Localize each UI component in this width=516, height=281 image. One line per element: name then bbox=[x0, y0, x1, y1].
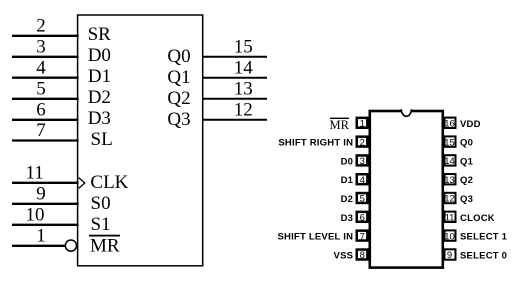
wire pin 2 SR bbox=[12, 35, 79, 37]
wire pin 12 Q3 bbox=[203, 119, 267, 121]
svg-text:SL: SL bbox=[91, 129, 113, 150]
svg-text:4: 4 bbox=[36, 57, 46, 78]
svg-text:S1: S1 bbox=[91, 214, 111, 235]
svg-text:CLK: CLK bbox=[90, 172, 128, 193]
DIP pin 10 box bbox=[444, 230, 455, 242]
DIP pin 1 box bbox=[357, 118, 368, 130]
clock wedge bbox=[79, 178, 85, 189]
wire pin 1 MR bbox=[12, 245, 65, 247]
svg-text:SHIFT LEVEL IN: SHIFT LEVEL IN bbox=[277, 232, 353, 243]
svg-text:Q0: Q0 bbox=[460, 138, 473, 149]
DIP pin 5 box bbox=[357, 193, 368, 205]
svg-text:12: 12 bbox=[444, 194, 455, 205]
DIP pin 11 box bbox=[445, 212, 456, 224]
DIP label MR (pin 1) with overline bbox=[330, 118, 350, 132]
svg-text:2: 2 bbox=[360, 137, 365, 148]
svg-text:Q0: Q0 bbox=[167, 46, 190, 67]
inversion bubble MR bbox=[65, 240, 76, 251]
svg-text:D3: D3 bbox=[88, 108, 111, 129]
svg-text:VDD: VDD bbox=[460, 119, 481, 130]
svg-text:MR: MR bbox=[330, 118, 350, 132]
svg-text:SR: SR bbox=[88, 24, 112, 45]
svg-text:Q3: Q3 bbox=[167, 109, 190, 130]
svg-text:5: 5 bbox=[360, 194, 365, 205]
svg-text:D3: D3 bbox=[341, 213, 354, 224]
wire pin 13 Q2 bbox=[203, 98, 267, 100]
svg-text:D1: D1 bbox=[341, 175, 354, 186]
svg-text:14: 14 bbox=[234, 58, 254, 79]
wire pin 15 Q0 bbox=[203, 56, 267, 58]
wire pin 5 D2 bbox=[12, 98, 79, 100]
svg-text:1: 1 bbox=[360, 119, 365, 130]
svg-text:15: 15 bbox=[234, 37, 253, 58]
svg-text:6: 6 bbox=[36, 100, 46, 121]
DIP pin 15 box bbox=[444, 136, 455, 148]
DIP pin 8 box bbox=[357, 250, 368, 262]
svg-text:11: 11 bbox=[25, 163, 43, 184]
DIP-16 package body bbox=[370, 111, 443, 268]
svg-text:13: 13 bbox=[234, 79, 253, 100]
svg-text:8: 8 bbox=[360, 250, 365, 261]
DIP pin 13 box bbox=[444, 174, 455, 186]
svg-text:Q1: Q1 bbox=[167, 67, 190, 88]
svg-text:Q2: Q2 bbox=[460, 175, 473, 186]
DIP pin 16 box bbox=[444, 118, 455, 130]
wire pin 14 Q1 bbox=[203, 77, 267, 79]
svg-text:Q3: Q3 bbox=[460, 194, 473, 205]
svg-text:SELECT 0: SELECT 0 bbox=[460, 251, 507, 262]
IC body U1 (logic symbol) bbox=[78, 15, 203, 266]
DIP pin 6 box bbox=[357, 212, 368, 224]
svg-text:D2: D2 bbox=[88, 87, 111, 108]
svg-text:D2: D2 bbox=[341, 194, 354, 205]
svg-text:3: 3 bbox=[36, 37, 46, 58]
wire pin 9 S0 bbox=[12, 203, 79, 205]
DIP pin 7 box bbox=[357, 231, 368, 243]
svg-text:10: 10 bbox=[444, 231, 455, 242]
svg-text:9: 9 bbox=[36, 184, 46, 205]
DIP pin 3 box bbox=[357, 155, 368, 167]
svg-text:CLOCK: CLOCK bbox=[460, 213, 495, 224]
svg-text:6: 6 bbox=[360, 213, 365, 224]
svg-text:10: 10 bbox=[26, 205, 45, 226]
DIP notch bbox=[401, 109, 411, 116]
svg-text:2: 2 bbox=[36, 16, 46, 37]
svg-text:VSS: VSS bbox=[334, 251, 354, 262]
wire pin 3 D0 bbox=[12, 56, 79, 58]
svg-text:Q1: Q1 bbox=[460, 156, 474, 167]
svg-text:7: 7 bbox=[36, 120, 46, 141]
svg-text:4: 4 bbox=[360, 175, 365, 186]
svg-text:13: 13 bbox=[444, 175, 455, 186]
DIP pin 2 box bbox=[357, 137, 368, 149]
svg-text:16: 16 bbox=[444, 119, 455, 130]
svg-text:D0: D0 bbox=[88, 45, 111, 66]
svg-text:9: 9 bbox=[447, 250, 452, 261]
wire pin 7 SL bbox=[12, 139, 79, 141]
svg-text:S0: S0 bbox=[91, 193, 111, 214]
svg-text:7: 7 bbox=[360, 231, 365, 242]
label MR with overline bbox=[89, 235, 120, 237]
DIP pin 4 box bbox=[357, 174, 368, 186]
wire pin 10 S1 bbox=[12, 224, 79, 226]
svg-text:12: 12 bbox=[234, 100, 253, 121]
svg-text:11: 11 bbox=[445, 213, 455, 224]
svg-text:SELECT 1: SELECT 1 bbox=[460, 232, 508, 243]
svg-text:MR: MR bbox=[90, 235, 120, 256]
svg-text:1: 1 bbox=[36, 226, 46, 247]
svg-text:D0: D0 bbox=[341, 156, 354, 167]
svg-text:3: 3 bbox=[360, 156, 365, 167]
wire pin 4 D1 bbox=[12, 77, 79, 79]
DIP pin 14 box bbox=[444, 155, 455, 167]
svg-text:SHIFT RIGHT IN: SHIFT RIGHT IN bbox=[278, 138, 353, 149]
svg-text:D1: D1 bbox=[88, 66, 111, 87]
svg-text:14: 14 bbox=[444, 156, 455, 167]
DIP pin 9 box bbox=[445, 249, 456, 261]
DIP pin 12 box bbox=[444, 193, 455, 205]
svg-text:Q2: Q2 bbox=[167, 88, 190, 109]
wire pin 11 CLK bbox=[12, 182, 79, 184]
svg-text:15: 15 bbox=[444, 137, 455, 148]
wire pin 6 D3 bbox=[12, 119, 79, 121]
svg-text:5: 5 bbox=[36, 79, 46, 100]
